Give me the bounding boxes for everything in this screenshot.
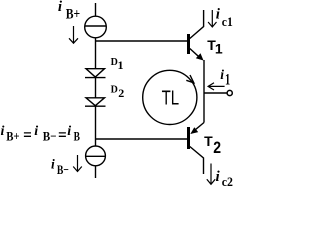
svg-text:1: 1 [225, 71, 230, 88]
transistor T2 collector lead [190, 147, 204, 175]
transistor T1 collector lead [190, 10, 204, 39]
svg-text:2: 2 [118, 86, 124, 100]
svg-text:i: i [67, 124, 71, 139]
diode D2 [85, 98, 106, 106]
wire right rail (T1 emitter to T2 emitter) [203, 60, 205, 123]
wire D1 to D2 [95, 78, 97, 98]
arrow left for output current i1 [208, 83, 225, 90]
transistor T2 base bar [187, 127, 190, 149]
label T2 [204, 133, 221, 157]
svg-text:B−: B− [43, 129, 57, 144]
wire bottom node to T2 base [96, 138, 188, 140]
svg-text:B: B [74, 129, 81, 144]
wire from IB+ source to top node [95, 38, 97, 69]
current source IB+ (top) [85, 16, 107, 38]
wire D2 down to bottom node [95, 106, 97, 146]
svg-text:B+: B+ [6, 129, 19, 144]
wire bottom lead below IB- source [95, 166, 97, 178]
arrow down for ic1 [208, 10, 216, 27]
TL loop direction arrowhead [186, 75, 194, 83]
svg-text:i: i [58, 0, 63, 15]
current source IB- (bottom) [86, 146, 106, 166]
label ic1 [216, 7, 233, 29]
transistor T2 emitter line [195, 123, 204, 131]
svg-text:i: i [216, 169, 221, 185]
wire top lead into IB+ source [95, 3, 97, 17]
svg-text:c1: c1 [222, 14, 233, 29]
svg-text:c2: c2 [222, 174, 233, 189]
label equation iB+ = iB- = iB [1, 124, 81, 144]
svg-text:B−: B− [57, 162, 69, 177]
svg-text:i: i [34, 124, 38, 139]
transistor T1 emitter arrowhead [196, 53, 204, 60]
svg-text:i: i [216, 7, 221, 23]
diode D1 [85, 69, 106, 78]
svg-text:1: 1 [118, 58, 124, 72]
wire top node to T1 base [96, 40, 188, 42]
svg-text:1: 1 [215, 41, 223, 57]
transistor T1 emitter line [190, 49, 201, 59]
svg-text:i: i [220, 67, 224, 82]
transistor T1 base bar [187, 34, 190, 54]
label iB- (at bottom source) [51, 157, 69, 178]
arrow down for ic2 [207, 164, 215, 185]
svg-text:B+: B+ [66, 6, 80, 22]
output terminal circle [227, 90, 232, 95]
svg-text:2: 2 [213, 138, 221, 157]
output stub wire [204, 92, 227, 94]
label i1 (output current) [220, 67, 230, 88]
svg-text:D: D [111, 85, 118, 96]
label D2 [111, 85, 125, 101]
svg-text:TL: TL [162, 88, 180, 110]
label iB+ (top left) [58, 0, 80, 22]
label ic2 [216, 169, 233, 189]
svg-text:T: T [204, 133, 213, 149]
label D1 [111, 57, 124, 72]
svg-text:i: i [51, 157, 55, 172]
transistor T2 emitter arrowhead [190, 127, 198, 134]
label T1 [207, 37, 223, 57]
arrow down for iB- [73, 155, 82, 172]
svg-text:i: i [1, 124, 5, 139]
arrow down for iB+ [69, 26, 78, 43]
translinear loop circle TL [143, 70, 197, 124]
